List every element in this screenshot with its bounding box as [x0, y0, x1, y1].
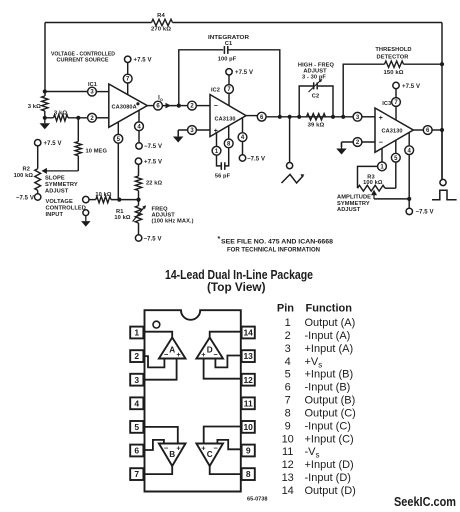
svg-text:CA3130: CA3130	[215, 117, 236, 123]
pin box 9	[242, 445, 255, 457]
svg-text:13: 13	[243, 351, 253, 361]
label Io	[158, 96, 163, 103]
terminal -7.5V IC3	[406, 208, 434, 216]
pin 2 IC1	[88, 113, 109, 122]
svg-text:+: +	[176, 444, 181, 453]
svg-text:+: +	[201, 350, 206, 359]
op-amp A	[159, 338, 186, 360]
svg-text:14: 14	[243, 328, 253, 338]
svg-text:1: 1	[134, 328, 139, 338]
wire R2 top	[37, 146, 39, 169]
op-amp U1 CA3080A	[109, 84, 148, 127]
potentiometer R2	[14, 167, 41, 191]
svg-text:10: 10	[282, 433, 294, 445]
pin 8 IC2	[224, 126, 233, 166]
terminal +7.5V IC3	[393, 82, 420, 90]
svg-text:Output (C): Output (C)	[305, 407, 356, 419]
svg-text:-Input (C): -Input (C)	[305, 420, 351, 432]
wire top feedback	[45, 22, 442, 24]
op-amp U2 CA3130	[210, 95, 246, 137]
wire left branch	[44, 23, 46, 97]
node M	[117, 198, 121, 202]
pin 6 IC3	[413, 126, 442, 135]
label voltage controlled input	[46, 199, 87, 218]
svg-text:+Input (C): +Input (C)	[305, 433, 354, 445]
svg-text:4: 4	[134, 398, 139, 408]
svg-text:−7.5 V: −7.5 V	[144, 144, 162, 150]
node N	[136, 198, 140, 202]
svg-text:100 kΩ: 100 kΩ	[363, 180, 383, 186]
wire pin9 to C minus	[217, 440, 241, 449]
waveform triangle	[282, 174, 305, 183]
wire C2 loop	[299, 86, 333, 117]
svg-text:11: 11	[282, 446, 293, 458]
svg-text:3: 3	[134, 375, 139, 385]
terminal +7.5V R2	[35, 140, 62, 148]
wire threshold right	[404, 63, 443, 65]
svg-text:+: +	[379, 115, 383, 122]
label 65-0738	[247, 497, 268, 503]
resistor 150k	[383, 61, 403, 76]
node K	[440, 128, 444, 132]
svg-text:B: B	[169, 450, 175, 459]
svg-text:R4: R4	[157, 13, 165, 19]
wire 3k to tee	[44, 111, 46, 118]
wire pin6 to B minus	[143, 440, 164, 450]
capacitor 56pF	[215, 162, 231, 179]
svg-text:+Input (A): +Input (A)	[305, 343, 354, 355]
node E	[278, 115, 282, 119]
pin 7 IC2	[225, 75, 234, 106]
pin box 7	[130, 468, 143, 480]
svg-text:3: 3	[285, 343, 291, 355]
wire R2 bottom	[37, 190, 39, 193]
current arrow	[166, 103, 172, 109]
pin 3 IC2	[178, 126, 210, 136]
svg-text:10 MEG: 10 MEG	[86, 149, 108, 155]
capacitor C2	[309, 79, 323, 100]
terminal +7.5V IC1	[125, 56, 152, 63]
node F	[288, 115, 292, 119]
svg-text:+Vs: +Vs	[305, 356, 323, 370]
svg-text:65-0738: 65-0738	[247, 497, 268, 503]
svg-text:FOR TECHNICAL INFORMATION: FOR TECHNICAL INFORMATION	[227, 247, 320, 253]
svg-text:CONTROLLED: CONTROLLED	[46, 205, 87, 211]
svg-text:3 kΩ: 3 kΩ	[54, 110, 67, 116]
pin box 6	[130, 445, 143, 457]
svg-text:Function: Function	[306, 303, 353, 315]
resistor 10k input	[89, 196, 139, 202]
svg-text:9: 9	[285, 420, 291, 432]
svg-text:4: 4	[285, 356, 291, 368]
svg-text:3 kΩ: 3 kΩ	[28, 104, 41, 110]
node A	[43, 89, 47, 93]
label IC3	[382, 101, 391, 107]
pin 7 IC3	[392, 89, 401, 120]
svg-text:1: 1	[285, 317, 291, 329]
svg-text:12: 12	[282, 459, 294, 471]
label integrator	[208, 35, 250, 47]
svg-text:−7.5 V: −7.5 V	[416, 210, 434, 216]
pin box 3	[130, 374, 143, 386]
terminal input ground	[81, 210, 91, 227]
op-amp U3 CA3130 second	[375, 108, 413, 152]
svg-text:A: A	[169, 345, 175, 354]
label IC1	[88, 82, 97, 88]
resistor R4 270k	[151, 13, 173, 33]
svg-text:SYMMETRY: SYMMETRY	[337, 201, 370, 207]
wire triangle tap	[289, 117, 291, 163]
svg-text:+: +	[201, 444, 206, 453]
svg-text:-Input (A): -Input (A)	[305, 330, 351, 342]
pin 2 IC3	[342, 138, 376, 147]
wire pin10 to C plus	[204, 427, 242, 444]
svg-text:INPUT: INPUT	[46, 212, 64, 218]
svg-text:Output (D): Output (D)	[305, 485, 356, 497]
svg-text:VOLTAGE - CONTROLLED: VOLTAGE - CONTROLLED	[51, 51, 115, 57]
svg-text:9: 9	[246, 446, 251, 456]
label IC2	[211, 87, 220, 93]
ground G1	[40, 118, 51, 130]
svg-text:SeekIC.com: SeekIC.com	[394, 495, 456, 509]
svg-text:FREQ: FREQ	[152, 206, 169, 212]
pin box 12	[242, 374, 255, 386]
svg-text:+7.5 V: +7.5 V	[44, 141, 62, 147]
svg-text:IC2: IC2	[211, 87, 220, 93]
label R3	[363, 174, 383, 186]
wire IC2 out	[246, 115, 257, 117]
wire pin12 to D plus	[204, 359, 242, 379]
label voltage controlled current source	[51, 51, 115, 63]
pin 4 IC3	[405, 133, 414, 209]
svg-text:−7.5 V: −7.5 V	[144, 236, 162, 242]
pin box 8	[242, 468, 255, 480]
svg-text:14: 14	[282, 485, 294, 497]
svg-text:2: 2	[134, 351, 139, 361]
resistor 3k vertical	[28, 96, 48, 111]
svg-text:6: 6	[285, 382, 291, 394]
wire pin7 to B out	[143, 466, 172, 474]
resistor 22k	[135, 164, 162, 199]
label slope symmetry adjust	[45, 176, 78, 195]
pin 2 IC2	[188, 101, 210, 110]
node L	[407, 197, 411, 201]
node C	[76, 116, 80, 120]
wire C1 left	[179, 50, 223, 106]
pin 3 IC1	[88, 87, 109, 96]
watermark SeekIC.com	[394, 495, 456, 509]
wire C1 right	[228, 50, 280, 117]
svg-text:C2: C2	[312, 94, 319, 100]
terminal square out	[440, 179, 446, 185]
terminal -7.5V R2	[16, 194, 41, 202]
terminal triangle out	[287, 163, 293, 169]
terminal -7.5V IC2	[239, 155, 265, 163]
svg-text:−: −	[214, 444, 219, 453]
wire square tap	[441, 130, 443, 179]
wiper arrow R2	[42, 168, 79, 174]
op-amp B	[159, 444, 186, 467]
svg-text:3 - 30 pF: 3 - 30 pF	[302, 75, 326, 81]
svg-text:D: D	[207, 345, 213, 354]
pin box 5	[130, 421, 143, 433]
terminal -7.5V IC1	[136, 143, 162, 151]
resistor 39k	[307, 114, 326, 129]
svg-text:ADJUST: ADJUST	[152, 213, 176, 219]
pin 6 IC2	[257, 112, 353, 121]
resistor 10 MEG	[75, 118, 107, 171]
wire pin8 to C out	[210, 466, 242, 474]
svg-text:C: C	[207, 450, 213, 459]
svg-text:-Input (D): -Input (D)	[305, 472, 351, 484]
potentiometer R1	[114, 200, 146, 235]
svg-text:THRESHOLD: THRESHOLD	[375, 47, 411, 53]
svg-text:13: 13	[282, 472, 294, 484]
pin box 2	[130, 350, 143, 362]
svg-text:22 kΩ: 22 kΩ	[146, 181, 162, 187]
svg-text:+7.5 V: +7.5 V	[402, 84, 420, 90]
svg-text:CA3130: CA3130	[382, 129, 403, 135]
wire pin5 to B plus	[143, 427, 177, 444]
pin box 1	[130, 327, 143, 339]
op-amp C	[196, 444, 223, 467]
svg-text:CA3080A: CA3080A	[112, 104, 137, 110]
svg-text:-Input (B): -Input (B)	[305, 382, 351, 394]
svg-text:+7.5 V: +7.5 V	[134, 58, 152, 64]
wire pin1 to A out	[143, 332, 172, 338]
label high-freq adjust	[298, 63, 335, 81]
svg-text:+7.5 V: +7.5 V	[235, 70, 253, 76]
resistor 3k horizontal	[45, 110, 88, 121]
title package	[165, 268, 313, 294]
ground G2	[173, 131, 184, 143]
label freq adjust	[152, 206, 194, 224]
node I	[341, 115, 345, 119]
pin 1 IC2	[212, 133, 221, 166]
svg-text:8: 8	[285, 407, 291, 419]
svg-text:SYMMETRY: SYMMETRY	[45, 182, 78, 188]
svg-text:+7.5 V: +7.5 V	[144, 160, 162, 166]
pin box 14	[242, 327, 255, 339]
DIP body	[145, 310, 241, 491]
svg-text:7: 7	[134, 469, 139, 479]
svg-text:Pin: Pin	[277, 303, 294, 315]
pin box 11	[242, 397, 255, 409]
svg-text:2: 2	[285, 330, 291, 342]
svg-text:56 pF: 56 pF	[215, 174, 231, 180]
svg-text:39 kΩ: 39 kΩ	[308, 123, 325, 129]
svg-text:−: −	[379, 140, 383, 147]
svg-text:−: −	[214, 350, 219, 359]
ground G3	[336, 143, 347, 155]
svg-text:150 kΩ: 150 kΩ	[383, 70, 403, 76]
svg-text:11: 11	[244, 398, 253, 408]
wire pin2 to A minus	[143, 356, 164, 367]
terminal +7.5V IC2	[226, 69, 253, 77]
label amplitude symmetry adjust	[337, 195, 371, 213]
svg-text:−: −	[214, 103, 218, 110]
svg-text:(100 kHz MAX.): (100 kHz MAX.)	[152, 219, 194, 225]
svg-text:270 kΩ: 270 kΩ	[151, 27, 171, 33]
wire threshold left	[343, 64, 384, 117]
potentiometer R3	[358, 185, 410, 199]
svg-text:−: −	[164, 444, 169, 453]
svg-text:10: 10	[243, 422, 253, 432]
svg-text:+: +	[176, 350, 181, 359]
svg-text:SEE FILE NO. 475 AND ICAN-6668: SEE FILE NO. 475 AND ICAN-6668	[221, 239, 334, 245]
node H	[331, 115, 335, 119]
svg-text:+Input (D): +Input (D)	[305, 459, 354, 471]
capacitor C1	[218, 46, 237, 63]
pin 1 IC3	[358, 148, 387, 188]
svg-text:DETECTOR: DETECTOR	[377, 54, 409, 60]
wire pin14 to D out	[210, 332, 242, 338]
svg-text:14-Lead Dual In-Line Package: 14-Lead Dual In-Line Package	[165, 268, 313, 282]
pin 5 IC1	[114, 122, 123, 200]
svg-text:100 pF: 100 pF	[218, 57, 237, 63]
terminal -7.5V R1	[135, 235, 161, 243]
wire IC1 to IC2	[179, 105, 188, 107]
svg-text:10 kΩ: 10 kΩ	[114, 215, 130, 221]
svg-text:(Top View): (Top View)	[207, 282, 266, 294]
pin 4 IC1	[135, 111, 144, 143]
svg-text:+Input (B): +Input (B)	[305, 369, 354, 381]
svg-text:5: 5	[134, 422, 139, 432]
svg-text:−7.5 V: −7.5 V	[247, 156, 265, 162]
svg-text:R2: R2	[23, 167, 30, 173]
svg-text:CURRENT SOURCE: CURRENT SOURCE	[57, 58, 109, 64]
op-amp D	[196, 338, 223, 360]
pin function table	[277, 303, 356, 497]
node J	[440, 62, 444, 66]
svg-text:-Vs: -Vs	[305, 446, 320, 460]
svg-text:5: 5	[285, 369, 291, 381]
note see file	[218, 236, 334, 253]
svg-text:ADJUST: ADJUST	[45, 189, 69, 195]
svg-text:AMPLITUDE: AMPLITUDE	[337, 195, 371, 201]
pin 5 IC3	[391, 140, 400, 188]
pin box 13	[242, 350, 255, 362]
node D	[177, 104, 181, 108]
node G	[297, 115, 301, 119]
pin 3 IC3	[353, 112, 375, 121]
svg-text:Output (A): Output (A)	[305, 317, 356, 329]
svg-text:7: 7	[285, 395, 291, 407]
svg-text:−7.5 V: −7.5 V	[16, 195, 34, 201]
terminal VC input	[83, 192, 112, 203]
terminal +7.5V 22k	[135, 158, 162, 166]
svg-text:IC3: IC3	[382, 101, 391, 107]
wire right branch	[441, 23, 443, 180]
node B	[43, 116, 47, 120]
svg-text:VOLTAGE: VOLTAGE	[46, 199, 73, 205]
pin box 10	[242, 421, 255, 433]
pin 6 IC1	[147, 101, 179, 110]
wire pin3 IC1	[45, 91, 88, 93]
svg-text:−: −	[164, 350, 169, 359]
svg-text:Output (B): Output (B)	[305, 395, 356, 407]
svg-text:100 kΩ: 100 kΩ	[14, 173, 34, 179]
svg-text:SLOPE: SLOPE	[45, 176, 65, 182]
pin 7 IC1	[123, 63, 132, 95]
svg-text:8: 8	[246, 469, 251, 479]
waveform square	[432, 190, 457, 199]
svg-text:6: 6	[134, 446, 139, 456]
svg-text:ADJUST: ADJUST	[337, 207, 361, 213]
pin 4 IC2	[238, 118, 247, 155]
pin1 index dot	[153, 321, 160, 328]
label threshold detector	[375, 47, 411, 60]
wire pin13 to D minus	[215, 356, 241, 368]
wire pin3 to A plus	[143, 359, 176, 380]
pin box 4	[130, 397, 143, 409]
svg-text:12: 12	[243, 375, 253, 385]
